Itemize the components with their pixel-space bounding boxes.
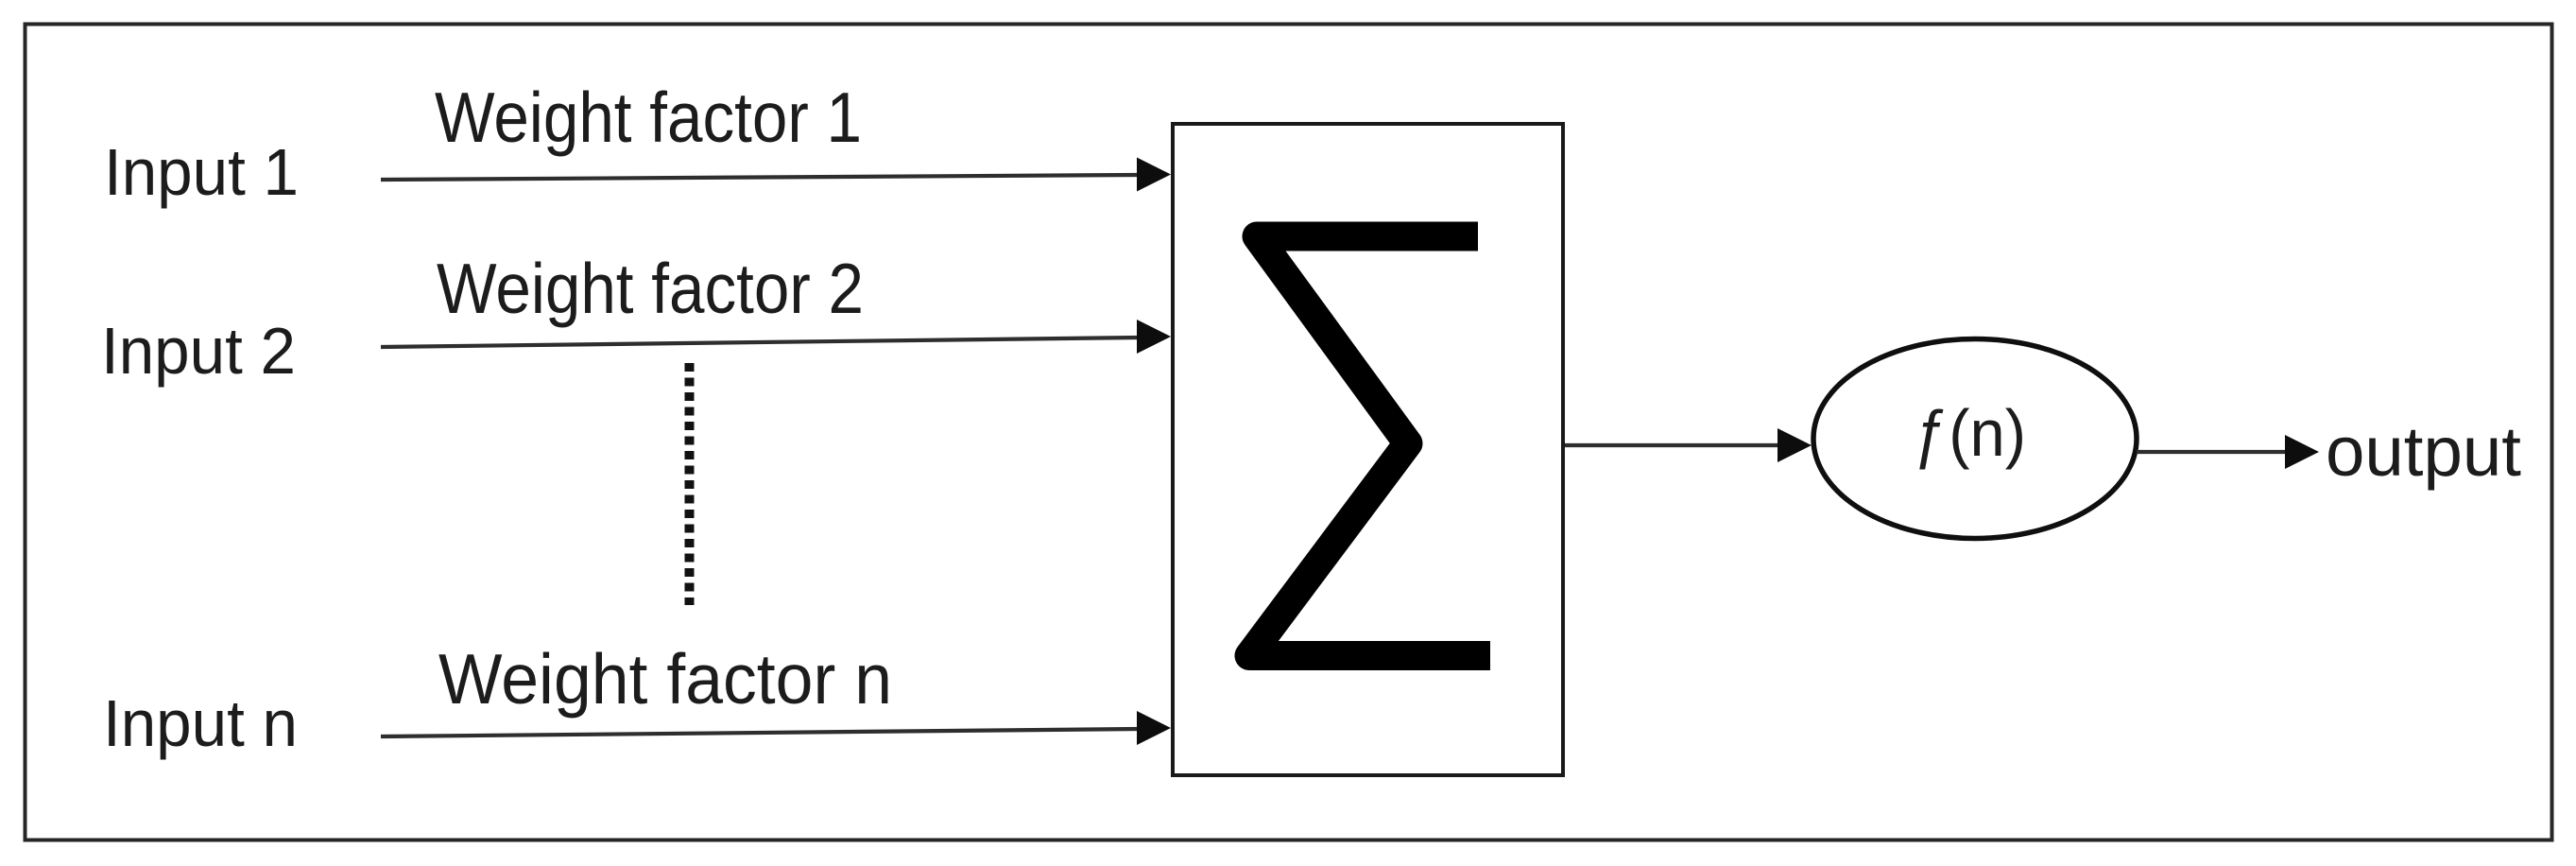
svg-text:Weight factor n: Weight factor n <box>438 639 892 719</box>
wire input 2 arrow <box>381 320 1171 354</box>
svg-text:Input 1: Input 1 <box>104 135 299 209</box>
svg-text:Weight factor 2: Weight factor 2 <box>437 249 864 328</box>
summation box <box>1173 124 1563 775</box>
svg-text:ƒ(n): ƒ(n) <box>1914 396 2026 470</box>
svg-text:output: output <box>2326 412 2521 491</box>
sigma symbol <box>1249 236 1490 656</box>
activation ellipse f(n) <box>1813 339 2137 539</box>
svg-text:Input n: Input n <box>103 686 298 760</box>
dotted ellipsis line <box>685 363 695 605</box>
svg-text:Input 2: Input 2 <box>101 314 296 388</box>
wire f(n) to output arrow <box>2137 435 2319 469</box>
wire input n arrow <box>381 711 1171 745</box>
wire input 1 arrow <box>381 158 1171 192</box>
svg-text:Weight factor 1: Weight factor 1 <box>435 78 862 157</box>
wire box to f(n) arrow <box>1565 428 1812 462</box>
